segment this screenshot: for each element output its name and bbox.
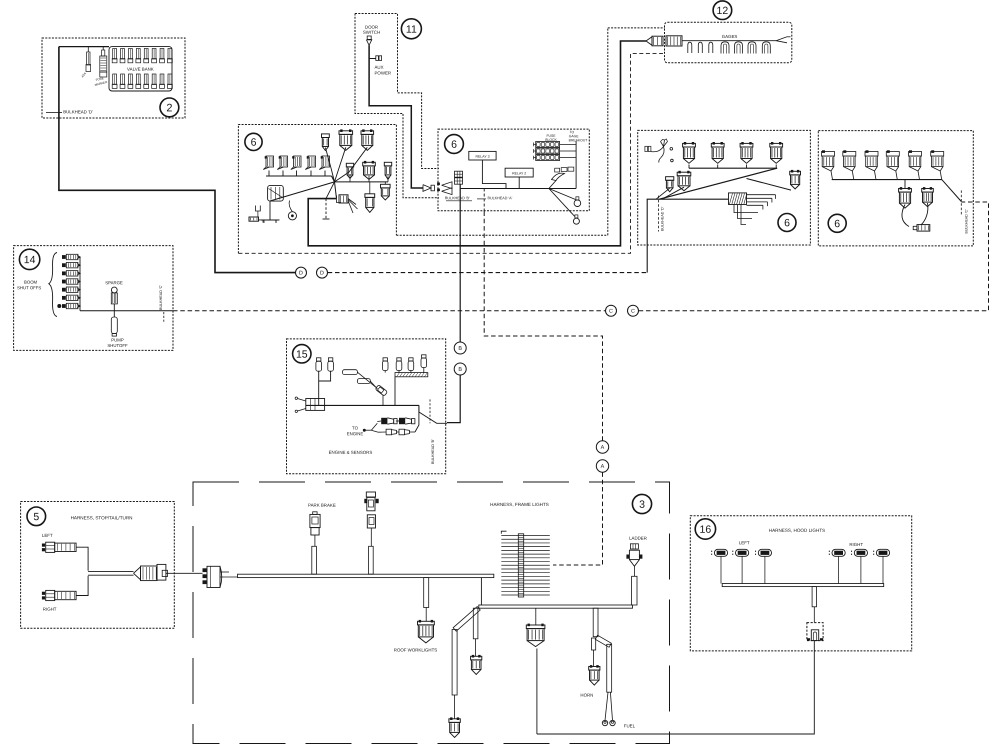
svg-text:D: D — [320, 270, 324, 276]
svg-text:SHUT OFFS: SHUT OFFS — [17, 285, 41, 290]
svg-text:C: C — [609, 309, 613, 315]
svg-text:A: A — [601, 445, 605, 451]
svg-text:ENGINE: ENGINE — [347, 431, 364, 436]
svg-text:SWITCH: SWITCH — [363, 30, 380, 35]
svg-text:B: B — [458, 346, 462, 352]
svg-text:HARNESS, FRAME LIGHTS: HARNESS, FRAME LIGHTS — [490, 502, 549, 507]
svg-text:6: 6 — [784, 217, 790, 229]
svg-text:RIGHT: RIGHT — [849, 542, 863, 547]
svg-text:ENGINE & SENSORS: ENGINE & SENSORS — [329, 450, 373, 455]
svg-text:BULKHEAD 'B': BULKHEAD 'B' — [445, 196, 470, 200]
svg-text:TO: TO — [352, 425, 359, 430]
svg-text:RELAY 2: RELAY 2 — [512, 171, 526, 175]
svg-text:BULKHEAD 'C': BULKHEAD 'C' — [159, 285, 163, 310]
svg-text:12: 12 — [717, 5, 729, 17]
svg-text:BULKHEAD 'D': BULKHEAD 'D' — [63, 109, 93, 114]
svg-text:6: 6 — [251, 137, 257, 149]
svg-text:GAGES: GAGES — [722, 34, 738, 39]
svg-text:ROOF WORKLIGHTS: ROOF WORKLIGHTS — [394, 647, 438, 652]
svg-text:RIGHT: RIGHT — [43, 607, 57, 612]
svg-text:SPARGE: SPARGE — [105, 280, 123, 285]
svg-text:BREAKOUT: BREAKOUT — [569, 138, 588, 142]
svg-text:D: D — [299, 270, 303, 276]
svg-text:VALVE BANK: VALVE BANK — [127, 67, 154, 72]
svg-text:LEFT: LEFT — [42, 533, 53, 538]
svg-text:2: 2 — [166, 102, 172, 114]
svg-text:RELAY 3: RELAY 3 — [475, 155, 489, 159]
svg-text:HARNESS, STOP/TAIL/TURN: HARNESS, STOP/TAIL/TURN — [71, 515, 133, 520]
svg-text:3: 3 — [639, 499, 645, 511]
svg-text:LEFT: LEFT — [739, 540, 750, 545]
svg-text:BULKHEAD 'D': BULKHEAD 'D' — [661, 206, 665, 231]
svg-text:BOOM: BOOM — [24, 280, 38, 285]
svg-text:11: 11 — [406, 24, 417, 36]
svg-text:15: 15 — [296, 349, 308, 361]
svg-text:SHUTOFF: SHUTOFF — [107, 343, 128, 348]
svg-text:C: C — [631, 309, 635, 315]
svg-text:6: 6 — [451, 139, 457, 151]
svg-text:BULKHEAD 'C': BULKHEAD 'C' — [965, 209, 969, 234]
svg-text:B: B — [458, 367, 462, 373]
svg-text:PUMP: PUMP — [111, 337, 124, 342]
svg-text:HORN: HORN — [580, 693, 593, 698]
svg-text:LADDER: LADDER — [629, 536, 647, 541]
svg-text:PARK BRAKE: PARK BRAKE — [308, 503, 336, 508]
svg-text:HARNESS, HOOD LIGHTS: HARNESS, HOOD LIGHTS — [769, 528, 825, 533]
svg-text:BULKHEAD 'A': BULKHEAD 'A' — [487, 196, 512, 200]
svg-text:AUX: AUX — [374, 65, 383, 70]
svg-text:6: 6 — [834, 218, 840, 230]
svg-text:16: 16 — [700, 524, 712, 536]
svg-text:14: 14 — [24, 254, 36, 266]
svg-text:POWER: POWER — [374, 71, 391, 76]
svg-text:FUEL: FUEL — [624, 723, 636, 728]
svg-text:A: A — [601, 464, 605, 470]
svg-text:5: 5 — [33, 511, 39, 523]
svg-text:BULKHEAD 'B': BULKHEAD 'B' — [431, 439, 435, 464]
